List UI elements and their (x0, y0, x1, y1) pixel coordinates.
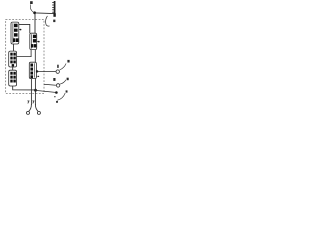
wire U5 bottom-left to plug (30, 79, 32, 105)
plug left terminal (27, 111, 30, 114)
numeral 10 (top left) (30, 1, 33, 4)
plug right lead curve (35, 104, 38, 111)
numeral at lead end (T3) (66, 90, 68, 92)
wire U4 bottom to output dot terminal (13, 86, 35, 90)
wire U1 bottom to U3 top (13, 44, 15, 51)
wire U2 bottom-right to U5 top (34, 50, 36, 63)
antenna coil L1 (52, 1, 56, 17)
node dot (antenna junction) (33, 11, 36, 14)
plug right terminal (37, 111, 40, 114)
lead line to antenna junction (30, 4, 33, 12)
numeral tick right wire (33, 101, 34, 104)
lead-line hook near coil (46, 16, 50, 26)
tick at lower end of T3 lead (56, 101, 58, 103)
wire U3 bottom to U4 top (12, 67, 14, 70)
numeral at lead end (T2) (67, 78, 69, 81)
plug left lead curve (29, 104, 32, 111)
junction blob at U5 output (36, 70, 38, 72)
block U3 (left middle) (9, 51, 17, 67)
numeral left of T2 (53, 78, 55, 81)
lead line from T1 (60, 64, 67, 71)
junction dot on wire (34, 89, 37, 92)
numeral at lead end (T1) (67, 60, 69, 63)
wire to terminal T2 (44, 84, 56, 85)
numeral tick left wire (28, 101, 29, 104)
antenna lead wire (horizontal) (35, 12, 54, 15)
terminal T3 (filled dot) (55, 91, 58, 94)
numeral below coil (53, 20, 55, 23)
numeral above T1 (57, 65, 59, 68)
pin with dot on U2 right (37, 41, 39, 43)
pin with dot on U5 right lower (36, 75, 38, 77)
wire U5 to terminal T1 (36, 70, 55, 72)
wire antenna feed (vertical into box) (34, 14, 36, 34)
wire U2 bottom-left to U3 right (17, 50, 31, 57)
block U2 (middle upper) (30, 33, 37, 49)
block U1 (battery/IC stack, upper left) (11, 22, 19, 44)
pin with dot on U1 right (19, 29, 20, 31)
wire U5 bottom-right to plug (34, 79, 36, 105)
lead line from T2 (60, 80, 66, 84)
lead line below T3 (54, 96, 55, 97)
wire U1 top to U2 top (19, 24, 30, 33)
wire junction to terminal T3 (37, 91, 56, 93)
background (0, 0, 78, 120)
block U4 (left lower) (9, 70, 17, 86)
terminal T1 (open circle) (56, 70, 59, 73)
dashed enclosure (receiver housing) (6, 20, 44, 94)
terminal T2 (open circle) (56, 84, 59, 87)
block U5 (middle lower) (29, 62, 36, 78)
